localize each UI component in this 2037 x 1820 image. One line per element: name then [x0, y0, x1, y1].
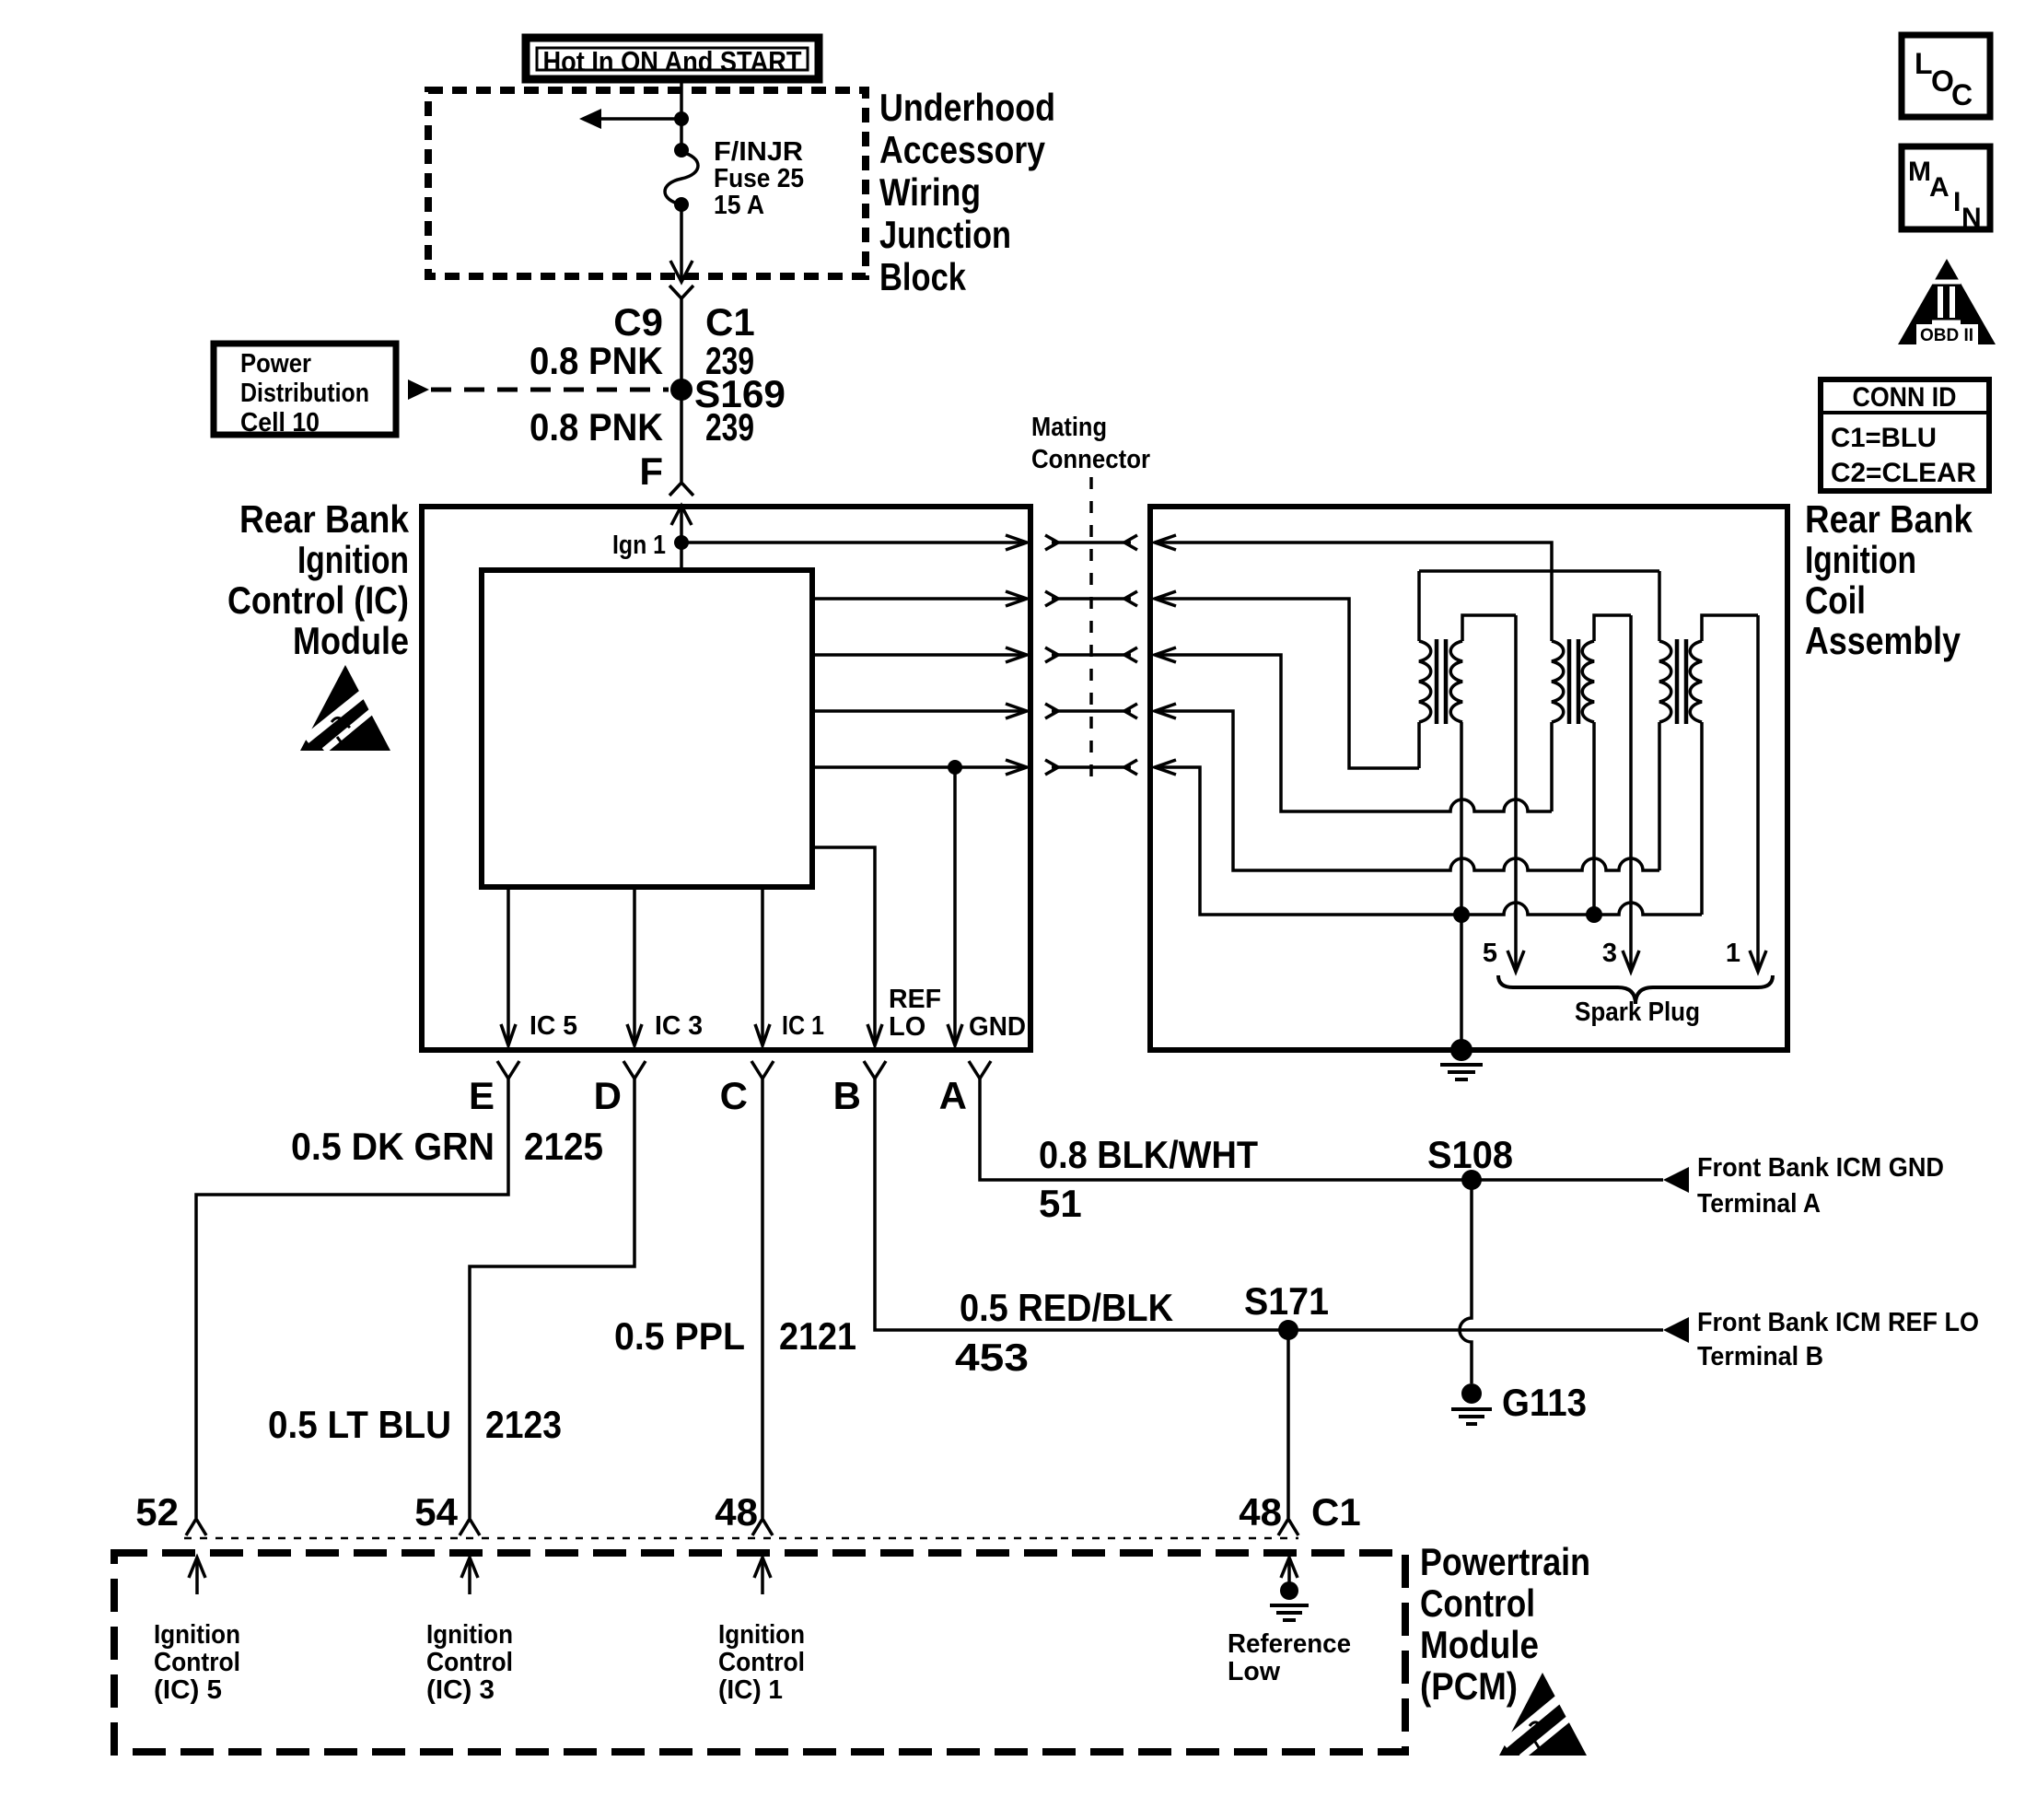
wire: T2 secondary top bridge to spark 3 — [1594, 615, 1631, 641]
connector pin B at module bottom — [864, 1061, 886, 1079]
wire: IC 3 down to pin D — [627, 887, 642, 1045]
mating connector pair wire 3 — [1045, 647, 1137, 662]
wire: 0.8 PNK 239 upper segment — [680, 298, 683, 482]
wire: low reference to module edge — [812, 760, 1027, 775]
svg-text:C1: C1 — [705, 300, 755, 344]
svg-text:Accessory: Accessory — [879, 128, 1046, 171]
svg-text:Ignition: Ignition — [154, 1620, 240, 1650]
wire: 0.5 DK GRN 2125 (IC 5) — [196, 1079, 508, 1518]
svg-text:IC 1: IC 1 — [782, 1011, 824, 1041]
wire: GND down to pin A — [948, 767, 962, 1045]
mating connector pair wire 2 — [1045, 591, 1137, 606]
svg-text:Module: Module — [293, 619, 409, 662]
wire: spark plug 5 lead — [1507, 615, 1524, 972]
LOC legend box — [1902, 35, 1990, 117]
wire: IC 1 down to pin C — [755, 887, 770, 1045]
wire: Ign 1 feed to T2 primary — [1155, 542, 1552, 641]
wire: 0.5 LT BLU 2123 (IC 3) — [470, 1079, 634, 1518]
svg-text:Coil: Coil — [1805, 578, 1866, 622]
svg-text:453: 453 — [955, 1336, 1029, 1379]
arrow into coil box wire 2 — [1155, 591, 1176, 606]
transformer T3 core — [1677, 639, 1686, 724]
svg-text:F: F — [639, 449, 663, 493]
transformer T1 secondary winding — [1450, 641, 1462, 722]
svg-text:Control: Control — [426, 1648, 513, 1677]
wire: IC3 control to T2 primary low (hops) — [1155, 655, 1552, 811]
svg-text:48: 48 — [715, 1490, 758, 1534]
wire: low reference bus to secondary lows (hops) — [1155, 722, 1702, 915]
svg-text:C1=BLU: C1=BLU — [1831, 423, 1937, 453]
svg-text:B: B — [833, 1074, 861, 1117]
arrow into PCM pin 54 — [461, 1557, 478, 1594]
label: Rear Bank Ignition Control (IC) Module — [227, 497, 410, 662]
wire: T1 secondary low — [1460, 722, 1463, 915]
wire: IC5 control to T1 primary low — [1155, 599, 1419, 768]
svg-text:LO: LO — [889, 1012, 925, 1042]
label: Front Bank ICM REF LO Terminal B — [1697, 1308, 1979, 1371]
label: Ignition Control (IC) 1 — [718, 1620, 805, 1705]
svg-text:Terminal A: Terminal A — [1697, 1189, 1821, 1219]
transformer T2 primary winding — [1552, 641, 1564, 722]
svg-text:Distribution: Distribution — [240, 379, 369, 408]
svg-text:CONN ID: CONN ID — [1853, 382, 1957, 413]
junction dot on ignition feed — [674, 111, 689, 126]
svg-text:Underhood: Underhood — [879, 86, 1055, 129]
svg-text:0.5 PPL: 0.5 PPL — [614, 1314, 745, 1358]
label: Underhood Accessory Wiring Junction Block — [879, 86, 1055, 298]
mating connector dashed line — [1089, 477, 1093, 787]
wire: REF LO down to pin B — [812, 847, 882, 1045]
label: Ignition Control (IC) 3 — [426, 1620, 513, 1705]
svg-text:0.8 PNK: 0.8 PNK — [530, 339, 663, 382]
MAIN legend box — [1902, 146, 1990, 233]
transformer T1 core — [1437, 639, 1446, 724]
svg-text:Rear Bank: Rear Bank — [239, 497, 410, 541]
wire: Ign 1 feed into inner square — [680, 506, 683, 570]
PCM connector face (fine dashed) — [184, 1537, 1298, 1540]
svg-text:Control: Control — [1420, 1581, 1535, 1625]
svg-text:Rear Bank: Rear Bank — [1805, 497, 1973, 541]
wire: 0.8 BLK/WHT 51 (GND) — [980, 1079, 1663, 1180]
svg-text:GND: GND — [969, 1012, 1026, 1042]
svg-text:3: 3 — [1602, 939, 1617, 968]
junction dot T1 secondary low — [1453, 906, 1470, 923]
wire: 0.5 RED/BLK 453 (REF LO) — [875, 1079, 1663, 1330]
label: Rear Bank Ignition Coil Assembly — [1805, 497, 1973, 662]
arrow into coil box wire 5 — [1155, 760, 1176, 775]
label: F/INJR Fuse 25 15 A — [714, 137, 804, 220]
svg-text:I: I — [1953, 187, 1961, 217]
dashed wire to power distribution — [431, 388, 669, 392]
wire: T3 secondary top bridge to spark 1 — [1702, 615, 1758, 641]
svg-text:(IC) 1: (IC) 1 — [718, 1675, 783, 1705]
splice S108 — [1461, 1170, 1482, 1190]
svg-text:0.8 BLK/WHT: 0.8 BLK/WHT — [1039, 1133, 1258, 1176]
transformer T2 secondary winding — [1582, 641, 1594, 722]
wire: coil 1 drive to module edge — [812, 704, 1027, 718]
svg-text:Terminal B: Terminal B — [1697, 1342, 1823, 1371]
arrow up into module at pin F — [671, 506, 692, 525]
connector pin D at module bottom — [623, 1061, 646, 1079]
mating connector pair wire 4 — [1045, 704, 1137, 718]
svg-text:0.8 PNK: 0.8 PNK — [530, 405, 663, 449]
transformer T3 primary winding — [1659, 641, 1671, 722]
label: Mating Connector — [1031, 413, 1150, 474]
svg-text:Assembly: Assembly — [1805, 619, 1961, 662]
svg-text:C2=CLEAR: C2=CLEAR — [1831, 458, 1976, 488]
svg-text:C: C — [1951, 78, 1973, 111]
junction dot Ign 1 — [674, 535, 689, 550]
mating connector pair wire 1 — [1045, 535, 1137, 550]
connector F at module top — [669, 483, 693, 496]
wire: coil ground stem — [1460, 915, 1463, 1047]
svg-text:2125: 2125 — [524, 1125, 603, 1168]
OBD II symbol — [1898, 259, 1996, 345]
svg-text:15 A: 15 A — [714, 191, 764, 220]
svg-text:S108: S108 — [1427, 1133, 1513, 1176]
svg-text:Hot In ON And START: Hot In ON And START — [543, 45, 802, 77]
svg-text:IC 5: IC 5 — [530, 1011, 577, 1041]
ESD symbol (module) — [300, 665, 390, 751]
wire: fuse to junction block edge with down arrow — [670, 204, 693, 282]
wire: Ign 1 to module edge — [681, 535, 1027, 550]
label: Powertrain Control Module (PCM) — [1420, 1540, 1590, 1708]
svg-text:A: A — [1929, 172, 1950, 203]
wire: T1 secondary top bridge to spark 5 — [1462, 615, 1516, 641]
svg-text:Ignition: Ignition — [718, 1620, 805, 1650]
svg-text:C: C — [720, 1074, 748, 1117]
svg-text:Reference: Reference — [1228, 1629, 1351, 1659]
junction dot GND tap — [948, 760, 962, 775]
svg-text:Power: Power — [240, 349, 311, 379]
svg-text:Front Bank ICM GND: Front Bank ICM GND — [1697, 1153, 1944, 1183]
connector at PCM pin 54 — [460, 1519, 480, 1535]
arrow into PCM pin 48 — [754, 1557, 771, 1594]
terminal arrow Front Bank ICM GND — [1663, 1167, 1689, 1193]
svg-text:Junction: Junction — [879, 213, 1011, 256]
wire: primary bus T1-T3 — [1419, 571, 1659, 641]
wire: coil 3 drive to module edge — [812, 647, 1027, 662]
rear bank ignition coil assembly box — [1150, 507, 1787, 1050]
wire: coil 5 drive to module edge — [812, 591, 1027, 606]
svg-text:Ignition: Ignition — [297, 538, 409, 581]
svg-text:Front Bank ICM REF LO: Front Bank ICM REF LO — [1697, 1308, 1979, 1337]
wire: from Hot box down to fuse — [680, 79, 683, 150]
wire: T2 secondary low — [1592, 722, 1596, 915]
connector at PCM pin 52 — [186, 1519, 206, 1535]
svg-text:Low: Low — [1228, 1657, 1280, 1686]
svg-text:Ignition: Ignition — [1805, 538, 1916, 581]
arrow to power distribution cell 10 — [579, 109, 601, 129]
CONN ID legend box — [1821, 379, 1989, 491]
svg-text:0.5 LT BLU: 0.5 LT BLU — [268, 1403, 451, 1446]
svg-text:D: D — [594, 1074, 622, 1117]
svg-text:Control: Control — [154, 1648, 240, 1677]
svg-text:C1: C1 — [1311, 1490, 1361, 1534]
wire: S171 down to PCM 48 C1 — [1286, 1330, 1290, 1518]
svg-text:C9: C9 — [613, 300, 663, 344]
spark plug brace — [1498, 975, 1773, 1004]
ground G113 — [1451, 1383, 1492, 1424]
power distribution cell 10 box — [214, 344, 396, 435]
rear bank IC module box — [422, 507, 1030, 1050]
power label box: Hot In ON And START — [526, 38, 819, 79]
connector at PCM pin 48 — [752, 1519, 773, 1535]
connector at PCM pin 48 C1 — [1278, 1519, 1298, 1535]
ground reference low (inside PCM) — [1270, 1581, 1309, 1620]
svg-text:0.5 RED/BLK: 0.5 RED/BLK — [960, 1286, 1173, 1329]
svg-text:Module: Module — [1420, 1623, 1539, 1666]
IC module inner square — [482, 570, 812, 887]
svg-text:(IC) 3: (IC) 3 — [426, 1675, 495, 1705]
svg-text:54: 54 — [414, 1490, 458, 1534]
svg-text:2121: 2121 — [779, 1314, 856, 1358]
connector pin E at module bottom — [497, 1061, 519, 1079]
arrow into coil box wire 1 — [1155, 535, 1176, 550]
svg-text:IC 3: IC 3 — [655, 1011, 703, 1041]
svg-text:Control (IC): Control (IC) — [227, 578, 409, 622]
arrow into PCM pin 48 C1 — [1281, 1557, 1298, 1582]
wire: IC1 control to T3 primary low (hops) — [1155, 711, 1659, 870]
powertrain control module box (dashed) — [114, 1553, 1405, 1752]
svg-text:Connector: Connector — [1031, 445, 1150, 474]
svg-text:(IC) 5: (IC) 5 — [154, 1675, 222, 1705]
arrow into PCM pin 52 — [189, 1557, 205, 1594]
connector C9/C1 — [669, 286, 693, 298]
arrow into coil box wire 4 — [1155, 704, 1176, 718]
ground (coil assembly case) — [1440, 1039, 1483, 1079]
wire: IC 5 down to pin E — [501, 887, 516, 1045]
transformer T2 core — [1569, 639, 1578, 724]
label: Front Bank ICM GND Terminal A — [1697, 1153, 1944, 1219]
arrow into coil box wire 3 — [1155, 647, 1176, 662]
svg-text:A: A — [939, 1074, 967, 1117]
svg-text:OBD II: OBD II — [1920, 326, 1973, 345]
svg-text:48: 48 — [1239, 1490, 1282, 1534]
svg-text:5: 5 — [1483, 939, 1497, 968]
svg-text:Powertrain: Powertrain — [1420, 1540, 1590, 1583]
svg-text:Block: Block — [879, 255, 967, 298]
svg-text:52: 52 — [135, 1490, 179, 1534]
arrow from power distribution box — [408, 379, 429, 400]
svg-text:N: N — [1961, 203, 1982, 233]
svg-text:F/INJR: F/INJR — [714, 137, 803, 167]
wire: 0.5 PPL 2121 (IC 1) — [761, 1079, 764, 1518]
connector pin C at module bottom — [751, 1061, 774, 1079]
svg-text:REF: REF — [889, 985, 941, 1014]
splice S169 — [670, 379, 693, 401]
mating connector pair wire 5 — [1045, 760, 1137, 775]
splice S171 — [1278, 1320, 1298, 1340]
label: Reference Low — [1228, 1629, 1351, 1686]
svg-text:Fuse 25: Fuse 25 — [714, 164, 804, 193]
svg-text:1: 1 — [1726, 939, 1740, 968]
svg-text:L: L — [1915, 47, 1933, 80]
label: Ignition Control (IC) 5 — [154, 1620, 240, 1705]
svg-text:Control: Control — [718, 1648, 805, 1677]
wire: spark plug 1 lead — [1750, 615, 1766, 972]
wire: spark plug 3 lead — [1623, 615, 1639, 972]
svg-text:Mating: Mating — [1031, 413, 1107, 442]
svg-text:0.5 DK GRN: 0.5 DK GRN — [291, 1125, 495, 1168]
svg-text:Wiring: Wiring — [879, 170, 981, 214]
svg-text:Spark Plug: Spark Plug — [1575, 997, 1700, 1027]
svg-text:51: 51 — [1039, 1182, 1082, 1225]
label: pin 48 C1 — [1239, 1490, 1360, 1534]
svg-text:Ign 1: Ign 1 — [612, 531, 666, 560]
wire: branch to power distribution (left arrow) — [597, 117, 681, 121]
svg-text:2123: 2123 — [485, 1403, 562, 1446]
label: REF LO — [889, 985, 941, 1042]
svg-text:239: 239 — [705, 405, 754, 449]
ESD symbol (PCM) — [1499, 1673, 1587, 1757]
svg-text:Ignition: Ignition — [426, 1620, 513, 1650]
wire: S108 down to G113 (hop over REF LO) — [1460, 1180, 1472, 1383]
svg-text:S171: S171 — [1244, 1279, 1329, 1323]
underhood accessory wiring junction block (dashed box) — [428, 90, 866, 276]
terminal arrow Front Bank ICM REF LO — [1663, 1317, 1689, 1343]
fuse F/INJR Fuse 25 15 A — [665, 143, 698, 212]
connector pin A at module bottom — [969, 1061, 991, 1079]
svg-text:(PCM): (PCM) — [1420, 1664, 1518, 1708]
transformer T3 secondary winding — [1690, 641, 1702, 722]
junction dot T2 secondary low — [1586, 906, 1602, 923]
transformer T1 primary winding — [1419, 641, 1431, 722]
label: Power Distribution Cell 10 (inside junction block) — [240, 349, 369, 437]
svg-text:E: E — [469, 1074, 495, 1117]
svg-text:G113: G113 — [1502, 1381, 1587, 1424]
svg-text:M: M — [1908, 157, 1931, 187]
